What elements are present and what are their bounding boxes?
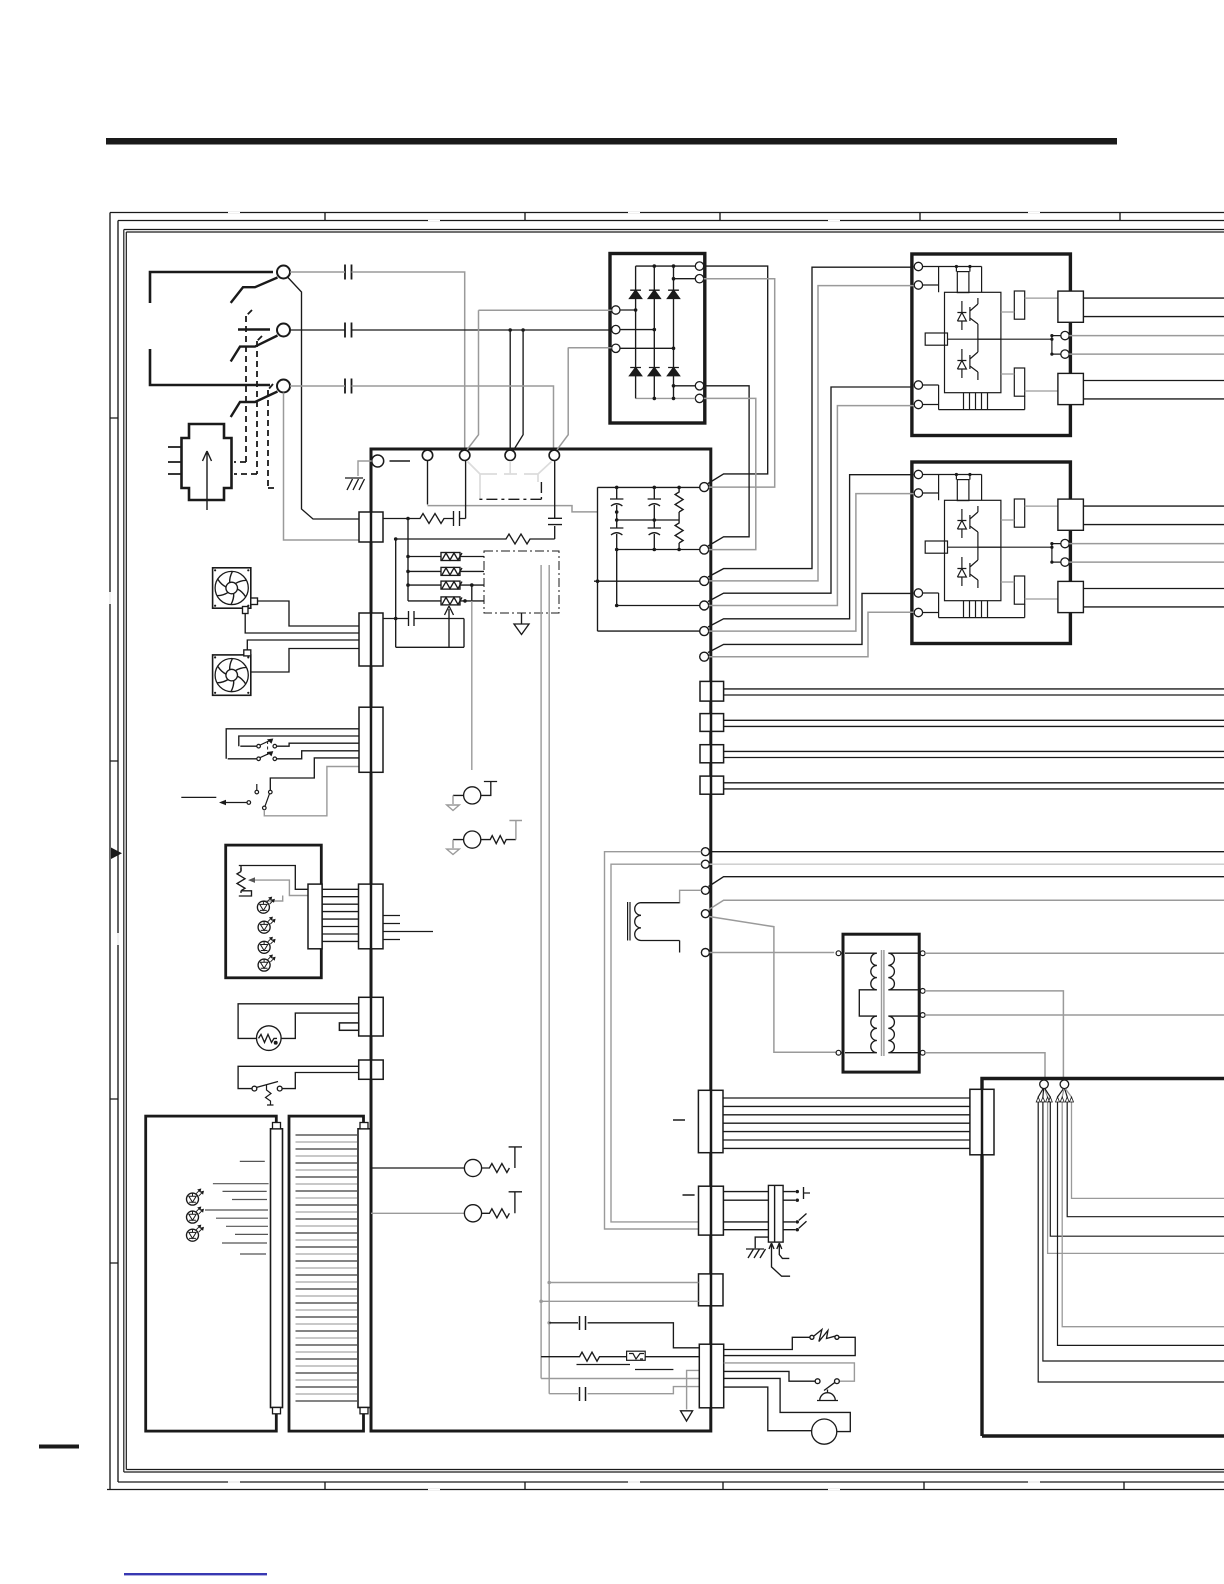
wire outdoor thermistor loop <box>238 1004 359 1039</box>
filter cap bank left rail <box>594 487 700 631</box>
wire CN22 w1 to pressure switch <box>724 1337 810 1349</box>
wire CN4 stubs right <box>383 916 433 940</box>
wire B4 nested <box>1065 1089 1224 1199</box>
wire Q5 gray to transformer pin <box>709 952 834 954</box>
wire B3 nested <box>1065 1089 1224 1217</box>
wire service wires to CN3 <box>226 729 359 759</box>
diode bridge bottom rail O4 gray <box>636 397 696 399</box>
wire bridge output O2 gray to P1 <box>704 279 775 487</box>
left border arrow marker <box>111 848 122 860</box>
diode bridge bottom rail O3 <box>674 385 696 387</box>
wire VR1 bottom <box>239 891 252 896</box>
main control board outline <box>371 449 711 1431</box>
wire CN20 to terminal block <box>723 1192 768 1230</box>
diode bridge input circle I3 <box>612 344 620 352</box>
node R10 junction <box>406 517 410 521</box>
connector CN21 <box>699 1274 724 1306</box>
wire L2 tap2 drop diagonal to board terminal <box>513 330 523 451</box>
main switch S1 frame bracket <box>150 272 273 385</box>
wire CN22 w6 to motor <box>724 1387 812 1431</box>
wire SW63H return <box>724 1337 856 1355</box>
ribbon bar right <box>358 1129 370 1408</box>
wire CN22 w5 to motor <box>724 1378 851 1431</box>
wire L1 gray from pole1 to board terminal <box>290 272 465 450</box>
board lower terminal Q1 <box>701 848 709 856</box>
drawing frame inner double line <box>124 230 1224 1473</box>
capacitor C10 <box>454 461 466 527</box>
main switch S1 linkage dashed <box>234 310 276 488</box>
node left rail taps <box>406 555 410 587</box>
wire P4 gray to PM1 input4 <box>709 406 914 606</box>
connector CN20 second block <box>699 1186 724 1235</box>
ground wire TB1 <box>755 1237 768 1248</box>
node bridge input junctions <box>634 264 676 400</box>
node cap bank junctions <box>596 486 681 608</box>
resistor R20 thermal fuse line <box>541 1352 699 1361</box>
ribbon CN4 rungs <box>322 889 358 941</box>
wire pole1 black drop to CN1 <box>288 277 360 519</box>
diode bridge input circle I1 <box>612 306 620 314</box>
sheet border outer line <box>107 213 1224 1490</box>
board top terminal T3 <box>505 450 515 460</box>
display board wire stubs <box>205 1161 269 1254</box>
interior rail gray B <box>548 565 550 1394</box>
bottom-left dash mark <box>39 1445 79 1449</box>
board top terminal T4 <box>549 450 559 460</box>
ribbon cable rungs dark <box>296 1135 358 1401</box>
main switch S1 middle pole stub <box>238 328 270 331</box>
wire B1 nested <box>1058 1089 1224 1346</box>
diode bridge column 3 <box>673 266 675 398</box>
wire Q3 jog long right <box>709 877 1224 887</box>
connector CN5 <box>339 997 383 1036</box>
wire P5 jog to PM2 input1 <box>708 475 914 627</box>
node NTC4 junction <box>463 599 467 603</box>
inverter board PCB2 outline <box>982 1079 1224 1437</box>
wire P3 gray to PM1 input2 <box>709 286 914 581</box>
sensor arrow up <box>445 606 454 647</box>
dash label CN15 <box>673 1119 685 1121</box>
defrost switch SW4 <box>252 1082 282 1092</box>
wire pushbutton feed <box>270 758 359 790</box>
resistor bank column C <box>675 487 683 549</box>
wire B2 nested <box>1062 1089 1224 1327</box>
compressor sensor TH5 <box>371 1212 464 1214</box>
wire bridge input I1 gray <box>479 309 612 311</box>
wire NTC junction link <box>471 585 473 601</box>
LED D11 <box>257 897 274 913</box>
test point arrow <box>221 802 247 804</box>
transformer T1 box <box>843 934 919 1072</box>
display board PCB4 <box>146 1116 277 1431</box>
wire bridge output O1 to P1 <box>704 266 768 483</box>
board lower terminal Q3 <box>701 886 709 894</box>
transformer T1 primary winding lower <box>845 1016 877 1053</box>
capacitor C21 line <box>549 1387 699 1394</box>
connector CN12 <box>700 714 724 732</box>
board right edge terminal P6 <box>700 652 709 661</box>
wire T1 drop to snubber rail <box>427 461 429 505</box>
dashed linkage SW1 SW2 <box>267 741 269 756</box>
thermistor NTC3 <box>408 581 484 589</box>
diode bridge output circle O4 <box>695 394 703 402</box>
transformer T1 secondary winding upper <box>888 953 920 991</box>
outdoor thermistor TH3 <box>257 1026 282 1051</box>
connector CN30 PCB2 left <box>970 1089 994 1155</box>
sensor TH2 ground arrow <box>447 840 460 855</box>
capacitor C11 horizontal plates <box>548 461 562 525</box>
wire CN21 gray feeds <box>541 1283 698 1302</box>
sensor TH2 circle <box>464 831 481 848</box>
wire T1 sec1 long right <box>925 952 1224 954</box>
capacitor C2 line L2 <box>345 323 352 338</box>
diode D6 <box>668 368 680 376</box>
switch SW4 actuator squiggle <box>266 1085 274 1105</box>
current transformer CT1 body <box>182 424 232 500</box>
wire L3 gray from pole3 <box>290 386 554 450</box>
sensor TH1 ground arrow <box>447 795 460 810</box>
wire SW3 return gray <box>264 767 359 816</box>
potentiometer VR1 <box>237 868 245 893</box>
interior rail gray A <box>540 565 542 1379</box>
diode D3 <box>668 290 680 298</box>
main switch S1 terminal circle pole3 <box>277 380 290 393</box>
transformer T1 secondary winding lower <box>888 1015 920 1053</box>
capacitor bank column A caps <box>610 487 700 605</box>
wire T1 sec3 long right <box>925 1014 1224 1016</box>
wire pole3 gray drop to CN1 low pin <box>284 393 360 541</box>
capacitor C20 line <box>549 1323 699 1348</box>
sensor TH2 circuit <box>453 836 516 844</box>
wire Q4 drop to transformer <box>709 917 836 1053</box>
diode D5 <box>648 368 660 376</box>
wire T1 sec4 to PCB2 circle A <box>925 1053 1045 1079</box>
sheet border inner zone line <box>118 221 1224 1483</box>
dash label CN20 <box>683 1194 695 1196</box>
top rule <box>106 138 1117 145</box>
wire Q2 long right light <box>709 863 1224 865</box>
main switch S1 terminal circle pole2 <box>277 324 290 337</box>
ground symbol TB1 <box>746 1249 766 1258</box>
wire Q3 to reactor coil <box>641 890 701 902</box>
connector CN4 LED board side <box>308 884 322 949</box>
wire bridge output O3 to P2 <box>704 386 749 546</box>
board top terminal T2 <box>460 450 470 460</box>
diode bridge output circle O1 <box>695 262 703 270</box>
wire A1 nested <box>1038 1089 1224 1382</box>
wire CN1 to cap C12 row <box>383 539 464 647</box>
fan motor MF2 <box>213 655 251 695</box>
capacitor bank column B caps <box>648 487 661 549</box>
capacitor C3 line L3 <box>345 379 352 394</box>
wire gray L to CN22 <box>541 1378 699 1380</box>
connector CN2 <box>359 613 383 666</box>
wire Q4 jog long right <box>709 900 1224 910</box>
buzzer BZ dome <box>817 1390 838 1401</box>
sensor TH1 circuit <box>453 782 497 796</box>
buzzer switch contacts <box>815 1379 839 1391</box>
PCB2 terminal circle B <box>1060 1080 1069 1089</box>
wire pair CN11 <box>724 689 1224 695</box>
diode D1 <box>630 290 642 298</box>
node interior rail taps <box>539 1281 551 1325</box>
pushbutton SW3 <box>255 784 272 810</box>
wire gray drop from NTC area <box>471 601 473 770</box>
display LED D23 <box>187 1225 204 1241</box>
ground wire CN22 <box>687 1370 700 1409</box>
wire A2 nested <box>1043 1089 1224 1361</box>
wire RC2 row <box>396 526 555 544</box>
wire bridge bottom input gray drop to T4 <box>557 348 568 450</box>
diode D2 <box>648 290 660 298</box>
board right edge terminal P3 <box>700 576 709 585</box>
wire pair CN12 <box>724 720 1224 726</box>
wire TB1 lead2 with arrow <box>777 1243 790 1258</box>
wire A3 nested <box>1045 1089 1224 1253</box>
filter cap bank mid rail <box>617 519 679 521</box>
wire left rail vertical <box>407 519 409 601</box>
node L2 tap2 <box>521 328 525 332</box>
shield box dash-dot upper <box>479 482 542 499</box>
capacitor C20 <box>580 1316 586 1330</box>
wire MF1 leads <box>245 601 359 633</box>
compressor sensor TH4 <box>371 1147 522 1173</box>
faston terminal F2 with blade <box>783 1214 806 1230</box>
wire VR1 top loop <box>239 866 308 890</box>
wire P3 jog to PM1 input1 <box>708 267 914 577</box>
connector CN4 board side <box>359 884 384 949</box>
ground triangle under shield box <box>514 613 529 635</box>
diode bridge DB1 box <box>610 254 705 424</box>
main switch S1 blade pole3 <box>231 392 278 418</box>
wire P4 jog to PM1 input3 <box>708 387 914 602</box>
board lower terminal Q4 <box>701 910 709 918</box>
wire A4 nested <box>1045 1089 1224 1236</box>
dip switch SW2 <box>257 752 277 761</box>
wire P5 gray to PM2 input2 <box>709 494 914 631</box>
connector CN22 <box>699 1344 723 1408</box>
diode bridge input circle I2 <box>612 325 620 333</box>
test point circle <box>247 801 251 805</box>
thermistor NTC4 <box>408 597 484 605</box>
fan motor MF1 <box>213 568 251 608</box>
wire pair CN13 <box>724 751 1224 757</box>
thermistor NTC2 <box>408 567 484 575</box>
connector CN14 <box>700 776 724 794</box>
wire LED feed gray <box>263 896 282 902</box>
thermistor NTC1 <box>408 553 484 561</box>
wire bridge input I3 gray <box>568 347 611 349</box>
board right edge terminal P5 <box>700 627 709 636</box>
wire SW1 SW2 returns <box>228 743 359 759</box>
diode bridge top rail <box>636 265 696 267</box>
connector CN11 <box>700 681 724 701</box>
board lower terminal Q2 <box>701 860 709 868</box>
filter cap bank top rail <box>598 486 701 488</box>
zone tick marks left border <box>110 418 118 1263</box>
wire TB1 lead1 with arrow <box>769 1243 790 1276</box>
transformer T1 primary winding upper <box>845 953 877 1016</box>
resistor R10 with cap line <box>383 514 453 524</box>
sensor TH1 circle <box>464 787 481 804</box>
PCB2 terminal circle A <box>1040 1080 1049 1089</box>
wire pair CN14 <box>724 783 1224 789</box>
blue underline bottom <box>124 1573 267 1575</box>
board right edge terminal P4 <box>700 601 709 610</box>
capacitor C21 <box>580 1387 586 1401</box>
terminal block TB1 <box>768 1185 783 1242</box>
diode bridge tap rail O2 <box>674 278 696 280</box>
ground symbol earth hatch <box>345 478 365 490</box>
ground triangle CN22 <box>681 1411 693 1421</box>
IGBT power module PM1 <box>912 254 1224 436</box>
current transformer CT1 left pins <box>168 447 182 474</box>
wire L2 tap1 drop to board terminal <box>509 330 511 450</box>
board lower terminal Q5 <box>701 949 709 957</box>
zone line gaps (white) <box>110 213 1040 1490</box>
capacitor C1 line L1 <box>345 265 352 280</box>
wire buzzer switch left leg <box>724 1371 816 1381</box>
node L2 tap1 <box>508 328 512 332</box>
transformer T1 pins <box>836 951 925 1055</box>
diode bridge output circle O2 <box>695 275 703 283</box>
ribbon cable 7 wires <box>723 1098 970 1148</box>
connector CN6 <box>359 1060 384 1079</box>
pressure switch SW63H <box>810 1330 839 1342</box>
ground wire <box>358 461 372 476</box>
transformer T1 core <box>882 950 884 1056</box>
wire bridge output O4 gray to P2 <box>704 398 756 549</box>
wire P6 gray to PM2 input4 <box>709 612 914 656</box>
IGBT power module PM2 <box>912 462 1224 644</box>
shield box dash-dot lower <box>484 551 559 613</box>
wire Q2 interior loop <box>611 864 701 1222</box>
display LED D21 <box>187 1189 204 1205</box>
LED board PCB3 outline <box>226 845 322 978</box>
ground terminal circle <box>372 455 384 467</box>
wire thermal contact marks <box>577 1365 674 1370</box>
board top terminal T1 <box>422 450 432 460</box>
ground terminal dash label <box>390 460 411 462</box>
wire Q1 interior loop <box>605 852 702 1229</box>
display LED D22 <box>187 1207 204 1223</box>
filter cap bank bottom rail <box>617 549 700 551</box>
ribbon cable rungs gray <box>296 1142 358 1394</box>
LED D13 <box>258 937 275 953</box>
node RC2 junction <box>394 537 398 541</box>
main switch S1 blade pole1 <box>231 278 278 303</box>
fan MF1 connector stub <box>251 598 258 605</box>
diode D4 <box>630 368 642 376</box>
wire CN22 w3 buzzer switch loop <box>724 1363 855 1381</box>
faston terminal F1 <box>783 1187 810 1200</box>
connector CN1 <box>359 512 383 542</box>
wire Q1 long right <box>709 851 1224 853</box>
connector CN3 <box>359 707 383 772</box>
capacitor C12 <box>409 611 415 626</box>
motor M circle <box>812 1419 837 1444</box>
dip switch SW1 <box>257 739 277 748</box>
main switch S1 blade pole2 <box>231 336 278 362</box>
wire bridge top input gray drop to T2 <box>467 310 479 450</box>
ghost wiring light gray <box>468 461 552 499</box>
LED D14 <box>258 955 275 971</box>
main switch S1 terminal circle pole1 <box>277 266 290 279</box>
current transformer CT1 arrow <box>203 451 212 510</box>
LED D12 <box>258 917 275 933</box>
connector CN13 <box>700 745 724 763</box>
wire snubber rail gray <box>428 506 598 512</box>
reactor coil L10 <box>628 902 630 941</box>
test point line <box>181 796 216 798</box>
board right edge terminal P1 <box>700 483 709 492</box>
diode bridge column 1 <box>635 266 637 398</box>
connector CN15 ribbon left <box>698 1090 723 1152</box>
wire P6 jog to PM2 input3 <box>708 593 914 652</box>
zone tick marks bottom border <box>325 1482 1124 1490</box>
diode bridge column 2 <box>653 266 655 398</box>
zone tick marks top border <box>325 213 1120 221</box>
fan MF2 connector stub <box>244 650 251 656</box>
ribbon bar left <box>271 1129 283 1408</box>
wire arrows under circles <box>1036 1097 1073 1102</box>
thermal fuse TF1 <box>627 1351 646 1360</box>
sensor TH2 top bar gray <box>509 821 522 840</box>
diode bridge output circle O3 <box>695 382 703 390</box>
wire MF2 leads <box>247 640 359 672</box>
ribbon housing box <box>289 1116 364 1431</box>
node C12 <box>394 617 398 621</box>
wire T1 sec2 to PCB2 circle B <box>925 991 1063 1079</box>
wire L2 black from pole2 to bridge input <box>290 329 611 331</box>
board right edge terminal P2 <box>700 545 709 554</box>
wire defrost switch loop <box>238 1066 359 1088</box>
wire VR1 wiper gray <box>251 880 308 895</box>
wire bridge input rows <box>620 310 674 348</box>
node NTC3 junction <box>470 583 474 587</box>
